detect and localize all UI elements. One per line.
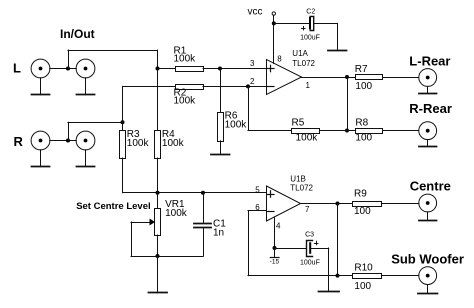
resistor R5 — [292, 129, 348, 134]
ground L jack 1 — [32, 78, 50, 95]
svg-text:2: 2 — [250, 77, 255, 86]
ground R-Rear — [419, 140, 437, 147]
node pin4 junction — [273, 246, 277, 250]
ground R6 — [211, 154, 230, 156]
svg-text:100k: 100k — [165, 208, 188, 219]
ground L-Rear — [419, 86, 437, 93]
wire R junction up — [68, 122, 70, 140]
connector Sub Woofer jack — [419, 267, 437, 285]
resistor R3 — [120, 122, 126, 193]
svg-text:100k: 100k — [127, 138, 150, 149]
svg-text:100: 100 — [355, 81, 372, 92]
node L input junction — [66, 67, 70, 71]
ground Sub Woofer — [418, 285, 437, 294]
node U1B output junction — [336, 202, 340, 206]
ground C2 — [328, 50, 347, 52]
node R1 left junction — [156, 67, 160, 71]
svg-text:R-Rear: R-Rear — [409, 101, 452, 116]
ground C3 — [319, 291, 340, 293]
wire C3 to ground — [311, 248, 329, 291]
op-amp U1A — [267, 60, 302, 95]
svg-text:5: 5 — [255, 186, 260, 195]
svg-text:100k: 100k — [162, 138, 185, 149]
vcc terminal — [248, 6, 276, 17]
svg-text:R8: R8 — [355, 117, 368, 128]
connector L jack 1 — [31, 59, 50, 78]
wire centre node — [123, 192, 267, 194]
node U1A output junction — [345, 75, 349, 79]
svg-text:Sub Woofer: Sub Woofer — [391, 251, 464, 266]
wire to pin 3 — [220, 68, 266, 70]
node vcc junction — [272, 21, 276, 25]
wire pin 4 — [274, 217, 276, 248]
node R10 junction — [336, 274, 340, 278]
svg-text:100k: 100k — [296, 133, 319, 144]
svg-text:U1A: U1A — [292, 49, 308, 58]
svg-text:100k: 100k — [174, 54, 197, 65]
svg-text:100uF: 100uF — [300, 34, 320, 41]
svg-text:1: 1 — [306, 81, 311, 90]
wire vcc to junction — [273, 15, 275, 23]
wire L down to R1 node — [157, 50, 159, 69]
node R5/R8 junction — [345, 129, 349, 133]
svg-text:3: 3 — [250, 59, 255, 68]
wire R jack1 to jack2 — [50, 140, 77, 142]
wire pin4 to C3 — [275, 248, 307, 250]
resistor R9 — [338, 202, 419, 207]
resistor R1 — [158, 67, 221, 72]
svg-text:100uF: 100uF — [300, 260, 320, 267]
wire R2 left lead — [123, 86, 176, 88]
svg-text:L: L — [13, 61, 21, 76]
wire output down to R5/R8 — [347, 77, 349, 131]
op-amp U1B — [267, 186, 301, 221]
svg-text:U1B: U1B — [290, 174, 306, 183]
svg-text:R9: R9 — [354, 189, 367, 200]
svg-text:In/Out: In/Out — [60, 27, 95, 41]
wire pin 6 feedback — [248, 211, 338, 276]
ground Centre — [419, 212, 437, 221]
node R4 bottom junction — [156, 191, 160, 195]
svg-text:8: 8 — [277, 54, 282, 63]
wire U1B output — [300, 203, 338, 205]
wire VR1 bottom rail — [131, 256, 203, 258]
supply -15 tap — [270, 248, 280, 265]
potentiometer VR1 — [131, 193, 161, 256]
wire L junction up — [68, 50, 70, 69]
node R input junction — [66, 139, 70, 143]
wire U1A output — [301, 77, 347, 79]
connector Centre jack — [419, 194, 437, 212]
wire output down to R10 — [337, 204, 339, 276]
node R3 top junction — [121, 120, 125, 124]
svg-text:100k: 100k — [174, 96, 197, 107]
resistor R8 — [347, 129, 419, 134]
svg-text:R7: R7 — [355, 64, 368, 75]
ground R jack 1 — [32, 150, 50, 167]
resistor R7 — [347, 75, 419, 80]
connector L jack 2 — [76, 59, 95, 78]
resistor R6 — [218, 69, 224, 155]
svg-text:L-Rear: L-Rear — [409, 54, 450, 69]
svg-text:100: 100 — [355, 133, 372, 144]
capacitor C3 — [307, 241, 318, 257]
svg-text:R: R — [14, 134, 24, 149]
wire L top horizontal — [68, 50, 158, 52]
svg-text:TL072: TL072 — [292, 59, 315, 68]
connector R-Rear jack — [419, 122, 437, 140]
wire R top horizontal — [68, 122, 123, 124]
node R5 branch junction — [246, 84, 250, 88]
svg-text:100: 100 — [354, 206, 371, 217]
node VR1 bottom junction — [156, 254, 160, 258]
svg-text:R5: R5 — [292, 117, 305, 128]
svg-text:100: 100 — [354, 281, 371, 292]
wire L jack1 to jack2 — [50, 68, 77, 70]
resistor R10 — [338, 274, 419, 279]
svg-text:vcc: vcc — [248, 6, 263, 17]
wire R riser to R2 line — [122, 86, 124, 122]
wire vcc to C2 — [274, 23, 309, 25]
ground R jack 2 — [77, 150, 95, 167]
wire C2 to ground — [314, 23, 338, 50]
svg-text:TL072: TL072 — [290, 183, 313, 192]
node R1 right junction — [218, 67, 222, 71]
svg-text:1n: 1n — [213, 227, 224, 238]
svg-text:Centre: Centre — [410, 179, 451, 194]
svg-text:7: 7 — [305, 205, 310, 214]
resistor R4 — [155, 69, 161, 193]
connector L-Rear jack — [419, 69, 437, 87]
resistor R2 — [176, 85, 267, 90]
svg-text:-15: -15 — [270, 258, 280, 265]
svg-text:C2: C2 — [306, 8, 315, 15]
capacitor C2 — [302, 17, 314, 31]
wire pin 8 — [273, 23, 275, 63]
ground VR1 — [149, 256, 168, 293]
capacitor C1 — [194, 193, 211, 256]
svg-text:C3: C3 — [305, 232, 314, 239]
svg-text:4: 4 — [276, 221, 281, 230]
wire pin2 to R5 — [248, 86, 291, 130]
ground L jack 2 — [77, 78, 95, 95]
connector R jack 1 — [31, 131, 50, 150]
svg-text:Set Centre Level: Set Centre Level — [76, 201, 150, 212]
svg-text:100k: 100k — [225, 120, 248, 131]
connector R jack 2 — [76, 131, 95, 150]
node C1 top junction — [201, 191, 205, 195]
svg-text:R10: R10 — [354, 263, 373, 274]
